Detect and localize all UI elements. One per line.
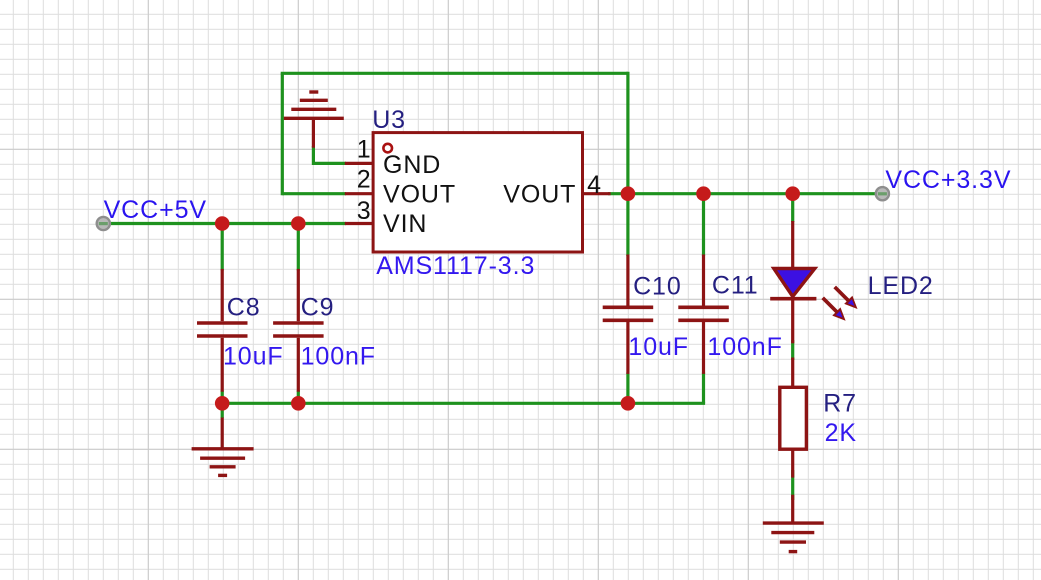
- wire: R7 to ground link: [791, 470, 794, 500]
- junction dot C8/VCC rail: [215, 216, 230, 231]
- svg-text:R7: R7: [823, 390, 857, 418]
- resistor R7 top lead: [791, 358, 794, 389]
- svg-text:C10: C10: [633, 272, 682, 300]
- svg-text:100nF: 100nF: [301, 342, 376, 370]
- junction dot C11/VOUT rail: [696, 186, 711, 201]
- junction dot C9/bottom rail: [291, 396, 306, 411]
- capacitor C11 top lead: [702, 255, 705, 306]
- wire: C11 branch upper: [702, 194, 705, 256]
- svg-text:VOUT: VOUT: [383, 180, 456, 208]
- capacitor C9 bottom plate: [273, 334, 324, 338]
- ground symbol (top, flipped): [284, 92, 344, 148]
- svg-text:VOUT: VOUT: [503, 180, 576, 208]
- capacitor C9 top lead: [297, 269, 300, 321]
- svg-text:10uF: 10uF: [628, 333, 689, 361]
- wire: C9 branch lower: [297, 391, 300, 404]
- svg-text:VCC+5V: VCC+5V: [104, 196, 207, 224]
- svg-text:2K: 2K: [825, 419, 857, 447]
- svg-text:U3: U3: [372, 106, 406, 134]
- svg-text:VCC+3.3V: VCC+3.3V: [885, 166, 1011, 194]
- LED2 light arrow 2 head: [832, 307, 845, 320]
- svg-text:GND: GND: [383, 151, 441, 179]
- wire: C10 branch lower: [626, 373, 629, 404]
- resistor R7 body: [780, 387, 807, 449]
- wire: C10 branch upper: [626, 194, 629, 256]
- capacitor C11 bottom lead: [702, 322, 705, 374]
- junction dot C8/bottom rail: [215, 396, 230, 411]
- wire: left vertical of top loop: [281, 73, 284, 195]
- svg-text:10uF: 10uF: [223, 342, 284, 370]
- terminal VCC+5V: [97, 217, 110, 230]
- capacitor C10 bottom plate: [603, 318, 654, 322]
- LED2 light arrow 2 shaft: [823, 298, 838, 313]
- regulator U3 body: [373, 133, 582, 252]
- capacitor C8 top plate: [197, 321, 248, 325]
- junction dot C10/VOUT rail: [621, 186, 636, 201]
- wire: pin 2 connection: [282, 192, 346, 195]
- LED2 cathode lead: [791, 299, 794, 344]
- svg-text:100nF: 100nF: [707, 333, 782, 361]
- wire: C8 branch lower: [221, 391, 224, 404]
- wire: C11 branch lower: [702, 373, 705, 404]
- capacitor C11 top plate: [678, 305, 729, 309]
- LED2 light arrow 1 head inner: [848, 299, 855, 306]
- terminal VCC+3.3V: [876, 187, 889, 200]
- svg-text:C8: C8: [227, 293, 261, 321]
- capacitor C10 top plate: [603, 305, 654, 309]
- junction dot C10/bottom rail: [621, 396, 636, 411]
- capacitor C8 bottom plate: [197, 334, 248, 338]
- capacitor C9 top plate: [273, 321, 324, 325]
- LED2 triangle: [774, 269, 815, 297]
- wire: stub below C8 bottom junction: [221, 403, 224, 418]
- U3 pin 2 stub: [345, 192, 373, 195]
- capacitor C10 top lead: [626, 255, 629, 306]
- wire: right vertical drop to VOUT rail: [626, 72, 629, 194]
- wire: C8 branch upper: [221, 224, 224, 271]
- ground symbol (bottom left): [192, 418, 254, 476]
- svg-text:AMS1117-3.3: AMS1117-3.3: [376, 252, 535, 280]
- LED2 anode lead: [791, 221, 794, 270]
- U3 pin 4 stub: [583, 192, 611, 195]
- U3 pin 3 stub: [345, 222, 373, 225]
- ground symbol (bottom right): [763, 495, 824, 552]
- capacitor C8 bottom lead: [221, 338, 224, 392]
- LED2 light arrow 2 head inner: [836, 311, 843, 318]
- wire: VOUT rail to VCC+3.3V: [608, 192, 882, 195]
- svg-text:2: 2: [357, 166, 372, 194]
- LED2 light arrow 1 shaft: [835, 287, 850, 302]
- resistor R7 bottom lead: [791, 449, 794, 477]
- svg-text:VIN: VIN: [383, 210, 427, 238]
- svg-text:1: 1: [357, 135, 372, 163]
- wire: VCC+5V rail: [103, 222, 346, 225]
- U3 pin 1 indicator circle: [383, 144, 392, 153]
- svg-text:3: 3: [357, 197, 372, 225]
- svg-text:4: 4: [587, 171, 602, 199]
- LED2 light arrow 1 head: [844, 296, 857, 309]
- wire: top horizontal of loop: [281, 72, 628, 75]
- wire: LED to R7 link: [791, 340, 794, 360]
- wire: bottom rail: [222, 402, 705, 405]
- svg-text:C11: C11: [712, 272, 759, 300]
- capacitor C9 bottom lead: [297, 338, 300, 392]
- capacitor C8 top lead: [221, 269, 224, 321]
- junction dot LED/VOUT rail: [785, 186, 800, 201]
- capacitor C10 bottom lead: [626, 322, 629, 374]
- U3 pin 1 stub: [345, 162, 373, 165]
- capacitor C11 bottom plate: [678, 318, 729, 322]
- svg-text:C9: C9: [301, 293, 335, 321]
- junction dot C9/VCC rail: [291, 216, 306, 231]
- svg-text:LED2: LED2: [868, 272, 934, 300]
- wire: LED branch stub: [791, 194, 794, 222]
- wire: C9 branch upper: [297, 224, 300, 271]
- wire: ground stem to pin 1: [312, 146, 346, 163]
- LED2 cathode bar: [770, 297, 816, 301]
